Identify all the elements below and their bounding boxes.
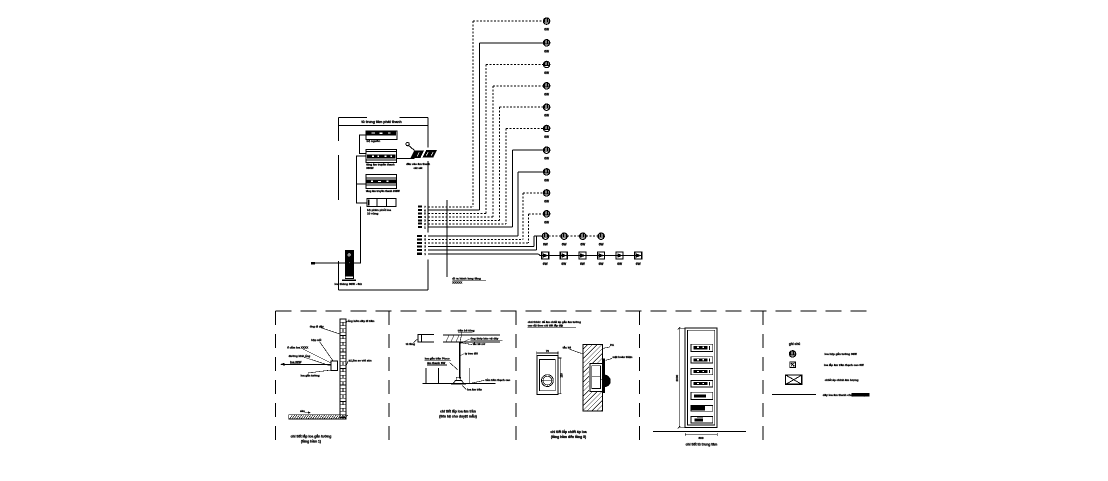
- svg-text:bộ nguồn: bộ nguồn: [367, 139, 381, 143]
- speaker circuit wires group2 (CB1-CB6): [428, 172, 641, 256]
- legend wire text: [823, 393, 870, 397]
- label loa picco: [425, 356, 458, 371]
- label ong thep: [461, 336, 503, 343]
- svg-text:(liên hệ cho duyệt mẫu): (liên hệ cho duyệt mẫu): [439, 414, 477, 418]
- floor hatch: [289, 415, 348, 419]
- device U2 amplifier: [366, 149, 396, 162]
- svg-text:tấm trần thạch cao: tấm trần thạch cao: [485, 378, 510, 382]
- svg-text:mặt hoàn thiện: mặt hoàn thiện: [613, 355, 633, 359]
- svg-text:6W: 6W: [544, 157, 549, 161]
- svg-text:4: 4: [424, 215, 426, 219]
- rack dim 800: [685, 433, 717, 440]
- speaker direction label: [290, 360, 302, 364]
- speaker row circles: [542, 233, 604, 239]
- svg-text:6W: 6W: [544, 92, 549, 96]
- ceiling hangers: [426, 368, 469, 384]
- label o cam loa: [287, 344, 331, 363]
- rack outline: [685, 328, 717, 427]
- ceiling slab lines: [443, 335, 500, 342]
- svg-text:800: 800: [698, 436, 703, 440]
- cassette deck A: [411, 150, 425, 158]
- svg-text:6W: 6W: [544, 199, 549, 203]
- svg-text:PA: PA: [610, 343, 615, 347]
- legend wire line: [772, 394, 816, 396]
- svg-text:360W: 360W: [366, 166, 374, 170]
- svg-text:XXXXX: XXXXX: [452, 280, 462, 284]
- rack floor line: [653, 431, 746, 433]
- wire U1-U2: [360, 135, 367, 154]
- label loa am tran: [462, 385, 482, 392]
- svg-text:hộp nối: hộp nối: [311, 338, 321, 342]
- svg-text:6W: 6W: [599, 243, 604, 247]
- device U4 label: [367, 208, 391, 216]
- ceiling speaker SP1 label: [544, 28, 549, 32]
- svg-text:loa 30W: loa 30W: [290, 360, 302, 364]
- svg-text:loa gắn tường: loa gắn tường: [301, 372, 320, 377]
- ceiling speaker SP3 label: [544, 71, 549, 75]
- svg-text:2: 2: [424, 222, 426, 226]
- legend attenuator symbol: [786, 375, 802, 384]
- duct bracket: [418, 335, 434, 342]
- svg-text:tắc kê: tắc kê: [563, 345, 572, 350]
- rack dim 2000: [675, 327, 685, 429]
- panel separator 3: [515, 311, 517, 447]
- svg-text:trần bê tông: trần bê tông: [458, 329, 475, 333]
- speaker circuit wires group1 (CB1-CB7): [428, 21, 543, 227]
- ceiling speaker SP4 label: [544, 92, 549, 96]
- svg-text:6W: 6W: [599, 262, 604, 266]
- svg-text:6W: 6W: [544, 49, 549, 53]
- cabinet tu trung tam outline: [339, 118, 429, 290]
- ceiling speaker SP5 label: [544, 114, 549, 118]
- ceiling speaker SP10 label: [544, 220, 549, 224]
- ceiling speaker SP6 label: [544, 135, 549, 139]
- device U2 label: [366, 162, 395, 170]
- microphone MIC: [406, 142, 414, 150]
- svg-text:3: 3: [424, 219, 426, 223]
- svg-text:6W: 6W: [544, 71, 549, 75]
- svg-text:ghi chú: ghi chú: [789, 342, 800, 346]
- svg-text:6W: 6W: [544, 220, 549, 224]
- label duong kinh ong: [289, 354, 331, 366]
- panel separator 5: [762, 311, 764, 447]
- ceiling speaker SP2 label: [544, 49, 549, 53]
- rack slots: [691, 344, 713, 423]
- wall section hatched: [583, 325, 603, 448]
- svg-text:1: 1: [424, 225, 426, 229]
- svg-text:6W: 6W: [580, 243, 585, 247]
- circuit labels group1: [418, 205, 426, 229]
- svg-text:≥1,5m so với sàn: ≥1,5m so với sàn: [349, 359, 372, 363]
- svg-text:ống đi dây: ống đi dây: [310, 324, 324, 328]
- svg-text:sàn: sàn: [300, 409, 305, 413]
- svg-text:cao độ theo chi tiết lắp đặt: cao độ theo chi tiết lắp đặt: [528, 322, 563, 327]
- svg-text:5: 5: [424, 212, 426, 216]
- panel border top dashed: [275, 310, 869, 312]
- panel separator 4: [639, 311, 641, 447]
- svg-text:tủ trung tâm phát thanh: tủ trung tâm phát thanh: [361, 120, 401, 124]
- label tam tran: [470, 378, 511, 384]
- ceiling speaker SP9 label: [544, 199, 549, 203]
- ceiling speaker SP5: [543, 104, 549, 110]
- ceiling speaker section: [451, 377, 466, 384]
- svg-text:chi tiết lắp chiết áp loa: chi tiết lắp chiết áp loa: [550, 429, 586, 434]
- device U1 tuner: [366, 131, 397, 139]
- svg-text:chi tiết lắp loa âm trần: chi tiết lắp loa âm trần: [440, 408, 476, 413]
- hanger rod: [459, 342, 461, 379]
- legend attenuator text: [825, 378, 859, 382]
- svg-text:chi tiết tủ trung tâm: chi tiết tủ trung tâm: [686, 443, 718, 447]
- svg-text:loa thùng 30W - 8Ω: loa thùng 30W - 8Ω: [335, 282, 363, 286]
- svg-text:6W: 6W: [544, 114, 549, 118]
- svg-text:ống luồn dây đi trần: ống luồn dây đi trần: [348, 319, 375, 323]
- svg-text:cát sét: cát sét: [414, 166, 423, 170]
- speaker arrow line: [281, 363, 331, 365]
- wire terminal to speaker: [315, 262, 345, 264]
- svg-text:6W: 6W: [617, 262, 622, 266]
- svg-text:6: 6: [424, 208, 426, 212]
- ceiling speaker SP7 label: [544, 157, 549, 161]
- svg-text:4: 4: [424, 241, 426, 245]
- svg-text:2000: 2000: [675, 374, 679, 381]
- svg-text:2: 2: [424, 248, 426, 252]
- device U1 label: [367, 139, 381, 143]
- label ty treo: [461, 352, 479, 356]
- svg-text:tắc kê nở: tắc kê nở: [473, 341, 485, 346]
- svg-text:đường kính ống: đường kính ống: [289, 354, 311, 358]
- brick wall section: [340, 319, 346, 418]
- svg-text:tăng âm truyền thanh 240W: tăng âm truyền thanh 240W: [366, 189, 400, 193]
- svg-text:6W: 6W: [544, 178, 549, 182]
- svg-text:ty treo Ø8: ty treo Ø8: [465, 352, 479, 356]
- device U4 speaker selector: [367, 199, 396, 207]
- svg-text:chiết áp chỉnh âm lượng: chiết áp chỉnh âm lượng: [825, 378, 859, 382]
- svg-text:ống thép bảo vệ dây: ống thép bảo vệ dây: [470, 336, 498, 340]
- suspended ceiling line: [422, 383, 495, 385]
- cassette label: [406, 162, 430, 170]
- svg-text:10 vùng: 10 vùng: [367, 211, 379, 215]
- junction box on wall: [331, 361, 338, 370]
- svg-text:6: 6: [424, 234, 426, 238]
- floor label: [300, 409, 311, 414]
- label mat tuong: [606, 355, 633, 360]
- label loa gan tuong: [301, 370, 332, 377]
- panel3 note: [528, 319, 582, 328]
- corridor feeder wire: [446, 200, 448, 277]
- attenuator row squares: [542, 252, 642, 259]
- panel3 caption: [550, 429, 586, 439]
- ceiling speaker SP9: [543, 190, 549, 196]
- svg-text:1: 1: [424, 252, 426, 256]
- svg-text:6W: 6W: [562, 243, 567, 247]
- circuit labels group2: [417, 234, 427, 256]
- svg-text:70: 70: [546, 349, 550, 353]
- svg-text:7: 7: [424, 205, 426, 209]
- ceiling speaker SP7: [543, 147, 549, 153]
- svg-text:âm thanh 6W: âm thanh 6W: [427, 361, 445, 365]
- cassette deck B: [422, 150, 437, 158]
- svg-text:tủ tầng: tủ tầng: [406, 342, 416, 346]
- legend ceiling speaker text: [825, 351, 858, 356]
- wire U4 to floor speaker: [354, 206, 360, 263]
- panel separator 2: [388, 311, 390, 447]
- svg-text:(tầng hầm 1): (tầng hầm 1): [301, 439, 321, 443]
- svg-text:6W: 6W: [544, 135, 549, 139]
- duct label: [406, 339, 418, 347]
- legend title: [789, 342, 800, 346]
- label kep C: [458, 329, 475, 342]
- svg-text:loa lắp âm trần thạch cao 6W: loa lắp âm trần thạch cao 6W: [824, 362, 864, 367]
- legend ceiling speaker symbol: [789, 351, 795, 357]
- ceiling speaker SP8: [543, 169, 549, 175]
- svg-text:loa hộp gắn tường 30W: loa hộp gắn tường 30W: [825, 351, 858, 356]
- speaker row labels: [543, 243, 603, 247]
- svg-text:6W: 6W: [543, 262, 548, 266]
- svg-text:3: 3: [424, 245, 426, 249]
- ceiling speaker SP2: [543, 40, 549, 46]
- terminal block: [311, 262, 315, 265]
- device U3 label: [366, 189, 400, 193]
- svg-text:loa gắn trần Picco: loa gắn trần Picco: [425, 356, 450, 361]
- attenuator row labels: [543, 262, 641, 266]
- panel2 caption: [439, 408, 477, 418]
- ceiling speaker SP1: [543, 18, 549, 24]
- attenuator front view: [537, 356, 558, 395]
- svg-text:5: 5: [424, 238, 426, 242]
- speaker row dashed links: [549, 235, 599, 237]
- svg-text:6W: 6W: [543, 243, 548, 247]
- floor speaker label: [335, 282, 363, 286]
- wall top label: [346, 319, 374, 323]
- label tac ke: [563, 345, 583, 354]
- legend wall speaker text: [824, 362, 864, 367]
- panel4 caption: [686, 443, 718, 447]
- label height 1.5m: [346, 359, 372, 366]
- svg-text:loa âm trần: loa âm trần: [467, 388, 482, 392]
- svg-text:6W: 6W: [636, 262, 641, 266]
- cabinet title label: [361, 120, 401, 124]
- device U3 amplifier: [366, 175, 397, 189]
- attenuator section box: [589, 359, 610, 393]
- panel separator 1: [274, 311, 276, 447]
- wire U2 to cassette: [396, 158, 414, 160]
- svg-text:ổ cắm loa XXXX: ổ cắm loa XXXX: [287, 344, 308, 349]
- ceiling speaker SP4: [543, 83, 549, 89]
- wire U2-U3-U4 bus: [356, 156, 367, 203]
- panel1 caption: [291, 433, 332, 443]
- svg-text:6W: 6W: [580, 262, 585, 266]
- label PA: [602, 343, 614, 348]
- legend wall speaker symbol: [790, 362, 796, 368]
- label ong di day: [310, 324, 340, 334]
- svg-text:110: 110: [560, 373, 564, 378]
- svg-text:chi tiết lắp loa gắn tường: chi tiết lắp loa gắn tường: [291, 433, 332, 438]
- label hop noi: [311, 338, 333, 361]
- corridor feeder label: [452, 276, 486, 284]
- ceiling speaker SP6: [543, 125, 549, 131]
- svg-text:6W: 6W: [544, 28, 549, 32]
- label tac ke no: [461, 341, 486, 346]
- floor speaker LS1: [342, 250, 356, 281]
- front view dim right: [559, 358, 564, 394]
- svg-text:6W: 6W: [561, 262, 566, 266]
- svg-text:(tầng hầm đến tầng 5): (tầng hầm đến tầng 5): [551, 435, 586, 439]
- front view dim 70: [537, 349, 558, 355]
- ceiling speaker SP3: [543, 61, 549, 67]
- ceiling speaker SP10: [543, 211, 549, 217]
- ceiling speaker SP8 label: [544, 178, 549, 182]
